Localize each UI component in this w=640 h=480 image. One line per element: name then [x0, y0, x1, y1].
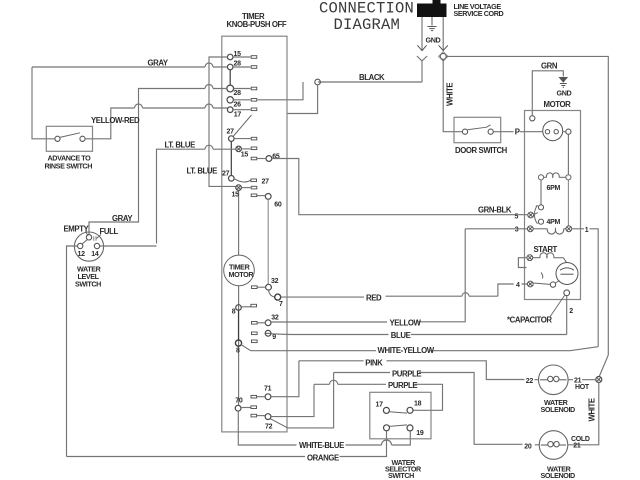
motor protector circle — [543, 121, 563, 141]
svg-text:17: 17 — [234, 111, 242, 118]
wire 70 down to WHITE-BLUE — [238, 411, 410, 445]
contact 28 upper — [227, 64, 233, 70]
terminal right of protector — [566, 129, 571, 134]
contact 32 upper — [266, 284, 272, 290]
ticks at water level top terminal — [94, 236, 96, 241]
svg-text:DIAGRAM: DIAGRAM — [334, 16, 401, 34]
selector terminal 18 — [407, 407, 413, 413]
wire 26 lead — [233, 99, 250, 101]
wire hot to node — [568, 379, 596, 381]
wire PURPLE lower — [271, 384, 443, 416]
svg-text:22: 22 — [526, 378, 534, 385]
wire protector to right terminal — [563, 131, 566, 133]
start switch blade — [533, 283, 550, 284]
svg-text:14: 14 — [91, 251, 99, 258]
wire water level right to lt blue — [100, 245, 157, 247]
contact 72 — [265, 414, 271, 420]
wire RED vertical to terminal 4 — [498, 284, 528, 296]
contact 15 lower — [236, 185, 242, 191]
terminal 1 — [566, 226, 572, 232]
wire YELLOW-RED — [93, 108, 228, 139]
hump LT BLUE over riser — [205, 145, 213, 149]
svg-text:FULL: FULL — [100, 227, 119, 236]
water level terminal left — [78, 243, 83, 248]
timer motor label — [229, 262, 255, 279]
door switch terminal left — [462, 129, 467, 134]
wire 28l to water level — [89, 89, 227, 235]
wire start coil jog — [518, 258, 527, 268]
svg-text:60: 60 — [274, 202, 282, 209]
advance switch terminal left — [55, 136, 60, 141]
ground symbol at plug — [428, 17, 437, 31]
wire PURPLE upper — [288, 373, 540, 445]
svg-text:BLACK: BLACK — [359, 73, 385, 82]
protector inner terminal left — [545, 130, 549, 134]
water selector switch box — [370, 392, 431, 439]
contact rect 15r — [251, 147, 257, 150]
wire capacitor 2 down — [566, 296, 568, 335]
advance switch blade — [60, 133, 80, 138]
contact rect 26 — [251, 99, 257, 102]
label WATER SELECTOR SWITCH — [385, 458, 422, 480]
start coil winding — [533, 253, 567, 263]
wire 28l lead — [234, 88, 251, 90]
node at black wire — [315, 79, 321, 85]
contact rect 17 — [251, 108, 257, 111]
start switch actuator tick — [541, 273, 543, 279]
door switch stubs — [454, 131, 514, 133]
hot solenoid coil — [540, 376, 567, 381]
door switch blade — [468, 125, 491, 130]
wire 15u from riser — [209, 57, 236, 186]
terminal GRN inside motor — [530, 116, 535, 121]
start switch link to capacitor — [555, 281, 559, 284]
svg-text:27: 27 — [222, 171, 230, 178]
wire 72 lead — [257, 415, 265, 417]
svg-text:WHITE: WHITE — [446, 83, 455, 106]
svg-text:6PM: 6PM — [547, 185, 561, 192]
svg-text:WHITE-BLUE: WHITE-BLUE — [299, 441, 344, 450]
contact rect 72 — [251, 414, 257, 417]
wire 65 to GRN-BLK — [272, 159, 528, 215]
contact 17 — [227, 107, 233, 113]
svg-text:32: 32 — [271, 278, 279, 285]
svg-text:DOOR SWITCH: DOOR SWITCH — [455, 146, 508, 155]
wire BLACK — [318, 81, 422, 83]
contact 70 — [235, 405, 241, 411]
hump PURPLE lower over riser — [330, 380, 338, 384]
svg-text:MOTOR: MOTOR — [229, 270, 255, 279]
svg-text:WHITE-YELLOW: WHITE-YELLOW — [378, 346, 435, 355]
label 21 hot — [574, 378, 590, 391]
water level switch circle — [74, 232, 103, 261]
wire BLUE — [271, 333, 567, 336]
contact rect 70 — [251, 406, 257, 409]
capacitor circle — [556, 263, 578, 285]
contact 15 right — [236, 146, 242, 152]
svg-text:RINSE SWITCH: RINSE SWITCH — [45, 161, 93, 170]
contact 32 lower — [265, 320, 271, 326]
svg-text:27: 27 — [262, 178, 270, 185]
blade 32-7 — [269, 290, 275, 297]
svg-text:GRN-BLK: GRN-BLK — [478, 206, 512, 215]
capacitor chord — [561, 273, 574, 275]
contact 65 — [266, 156, 272, 162]
contact rect 65 — [251, 157, 257, 160]
svg-text:8: 8 — [236, 347, 240, 354]
junction circle right lead — [440, 53, 446, 59]
wire contact 26 to black — [258, 82, 304, 100]
capacitor arc — [560, 268, 574, 270]
svg-text:72: 72 — [265, 424, 273, 431]
wire plug left lead — [421, 17, 423, 51]
selector terminal 17b — [384, 425, 390, 431]
svg-text:4: 4 — [516, 282, 520, 289]
link 27u-27l — [230, 141, 232, 175]
terminal 3 — [527, 226, 533, 232]
label WATER LEVEL SWITCH — [75, 264, 102, 288]
cold solenoid coil — [541, 442, 566, 447]
svg-text:CONNECTION: CONNECTION — [319, 0, 414, 18]
wire 60 lead — [257, 195, 265, 197]
svg-text:HOT: HOT — [575, 384, 590, 391]
svg-text:3: 3 — [515, 227, 519, 234]
arrow right lead — [439, 45, 448, 50]
contact rect 60 — [251, 194, 257, 197]
wire right terminal down to 6PM — [567, 134, 569, 174]
title CONNECTION DIAGRAM — [319, 0, 414, 34]
contact rect 8u — [251, 304, 257, 307]
wire 3 row with coil 4PM — [465, 228, 527, 230]
selector terminal 17 — [383, 407, 389, 413]
wire timer motor up to contact 15 — [238, 190, 240, 255]
contact 15 upper — [227, 54, 233, 60]
wire 1 to right — [572, 229, 599, 347]
wire top to far right — [446, 56, 608, 355]
svg-text:GND: GND — [557, 89, 572, 98]
svg-text:18: 18 — [414, 400, 422, 407]
svg-text:MOTOR: MOTOR — [544, 100, 572, 109]
svg-text:17: 17 — [376, 402, 384, 409]
selector blade 17b-19 — [389, 425, 407, 427]
selector blade 17-18 — [389, 412, 407, 413]
svg-text:GRN: GRN — [541, 62, 558, 71]
svg-text:21: 21 — [573, 442, 581, 449]
service cord plug (black block) — [417, 0, 447, 17]
hump YELLOW-RED over riser2 — [205, 104, 213, 108]
svg-text:*CAPACITOR: *CAPACITOR — [507, 315, 552, 324]
contact rect 27l — [251, 179, 257, 182]
svg-text:70: 70 — [235, 397, 243, 404]
wire 6PM right down to 4PM right — [567, 180, 569, 226]
svg-text:PURPLE: PURPLE — [388, 381, 417, 390]
wire water level left to orange — [67, 246, 78, 457]
ground symbol motor — [560, 78, 568, 88]
contact rect 15l — [251, 186, 257, 189]
wire 32u lead — [257, 286, 265, 288]
contact 9 — [265, 330, 271, 336]
svg-text:YELLOW: YELLOW — [390, 318, 422, 327]
water level blade — [82, 240, 87, 244]
node right — [596, 377, 602, 383]
advance to rinse switch box — [46, 126, 92, 151]
wire 6PM left down to centrifugal switch — [540, 180, 542, 205]
contact rect 28l — [251, 87, 257, 90]
label WATER SOLENOID cold — [541, 465, 576, 480]
wire 8u lead — [241, 306, 250, 308]
advance switch stubs — [46, 138, 92, 140]
wire 71 lead — [257, 396, 265, 398]
start coil terminal — [527, 255, 533, 261]
wire GRN — [532, 71, 563, 115]
wire left lead to BLACK — [421, 61, 423, 82]
timer motor circle — [224, 255, 255, 286]
svg-text:28: 28 — [234, 90, 242, 97]
hump 28l over riser — [205, 85, 213, 89]
svg-text:SOLENOID: SOLENOID — [541, 405, 576, 414]
wire diagonal into node — [599, 355, 608, 377]
contact rect 27u — [251, 137, 257, 140]
wire terminal5 tick — [534, 213, 538, 215]
pointer capacitor — [550, 296, 565, 318]
svg-text:SOLENOID: SOLENOID — [541, 471, 576, 480]
centrifugal switch contacts — [538, 205, 543, 210]
svg-text:4PM: 4PM — [547, 219, 561, 226]
contact 71 — [265, 394, 271, 400]
svg-text:RED: RED — [366, 293, 382, 302]
wire 70 lead — [241, 407, 251, 409]
arrow left lead — [417, 45, 426, 50]
svg-text:GRAY: GRAY — [148, 59, 169, 68]
wire 15r lead — [241, 148, 250, 150]
connector V left — [417, 56, 427, 61]
svg-text:2: 2 — [569, 308, 573, 315]
door switch terminal right — [488, 129, 493, 134]
svg-text:GND: GND — [426, 36, 441, 45]
wire GRAY top — [32, 67, 227, 139]
contact rect 71 — [251, 395, 257, 398]
label COLD 21 — [571, 436, 590, 450]
hump RED over yellow riser — [462, 293, 469, 297]
timer box — [222, 36, 287, 432]
svg-text:SERVICE CORD: SERVICE CORD — [454, 9, 504, 18]
door switch box — [454, 117, 501, 142]
wire node down white — [568, 383, 599, 445]
blade 8l — [241, 345, 251, 351]
contact 27 upper — [229, 136, 235, 142]
protector inner terminal right — [554, 130, 558, 134]
link 28u-28l — [229, 70, 231, 86]
contact rect 9 — [252, 332, 258, 335]
svg-text:LT. BLUE: LT. BLUE — [165, 141, 196, 150]
terminal 4 — [527, 281, 533, 287]
contact 7 — [275, 294, 281, 300]
link 8u-8l — [238, 310, 240, 340]
start switch terminal — [550, 282, 555, 287]
svg-text:12: 12 — [78, 251, 86, 258]
svg-text:ORANGE: ORANGE — [307, 453, 339, 462]
svg-text:26: 26 — [234, 101, 242, 108]
wire 15l lead — [241, 187, 250, 189]
pointer empty — [86, 232, 89, 236]
svg-text:65: 65 — [272, 154, 280, 161]
wire 65 lead — [257, 158, 266, 160]
contact 8 upper — [236, 305, 242, 311]
motor box — [525, 111, 581, 300]
wire P to motor — [520, 131, 543, 133]
hump WHITE-BLUE over orange riser — [382, 440, 392, 445]
coil 6PM — [538, 173, 571, 180]
contact rect 32u — [252, 286, 258, 289]
wire 15u lead — [233, 56, 251, 58]
svg-text:SWITCH: SWITCH — [75, 280, 101, 289]
wire PINK — [271, 361, 538, 397]
wire RED — [281, 295, 498, 298]
contact 28 lower — [227, 85, 234, 92]
svg-text:19: 19 — [416, 430, 424, 437]
contact 60 — [265, 194, 271, 200]
wire timer motor down to contact 70 — [238, 286, 240, 406]
advance switch terminal right — [80, 136, 85, 141]
water level terminal top — [86, 235, 91, 240]
svg-text:GRAY: GRAY — [112, 214, 133, 223]
svg-text:P: P — [515, 128, 520, 137]
svg-text:15: 15 — [241, 151, 249, 158]
pointer full — [97, 235, 102, 239]
svg-text:9: 9 — [272, 334, 276, 341]
wire ORANGE — [67, 431, 387, 457]
svg-text:32: 32 — [271, 315, 279, 322]
terminal 5 — [528, 212, 534, 218]
blade 17-27 — [234, 115, 252, 136]
wire 17 lead — [233, 109, 251, 111]
contact 27 lower — [229, 176, 235, 182]
water level terminal right — [94, 243, 99, 248]
capacitor bottom terminal — [564, 290, 570, 296]
svg-text:KNOB-PUSH OFF: KNOB-PUSH OFF — [227, 20, 287, 29]
svg-text:15: 15 — [232, 192, 240, 199]
wire plug right lead — [442, 17, 444, 51]
contact rect 28u — [251, 66, 257, 69]
wire 28u lead — [233, 66, 251, 68]
centrifugal switch arc — [534, 205, 537, 224]
svg-text:WHITE: WHITE — [588, 398, 597, 421]
blade 72 — [270, 419, 287, 428]
cold solenoid circle — [539, 431, 568, 460]
svg-text:START: START — [534, 245, 558, 254]
link 60 down to 32 — [267, 199, 269, 284]
label ADVANCE TO RINSE SWITCH — [45, 154, 93, 171]
svg-text:8: 8 — [232, 308, 236, 315]
hump YELLOW-RED over gray riser — [135, 104, 143, 108]
wire YELLOW — [271, 229, 465, 322]
coil 4PM winding — [533, 229, 566, 234]
svg-text:PINK: PINK — [365, 358, 383, 367]
svg-text:SWITCH: SWITCH — [388, 471, 414, 480]
contact rect 32l — [252, 322, 258, 325]
contact 26 — [227, 97, 233, 103]
svg-text:7: 7 — [279, 301, 283, 308]
contact rect 15u — [251, 56, 257, 59]
wire white vertical to door switch — [443, 60, 454, 132]
timer label — [227, 12, 287, 29]
svg-text:LT. BLUE: LT. BLUE — [187, 166, 218, 175]
svg-text:71: 71 — [264, 386, 272, 393]
selector terminal 19 — [407, 425, 413, 431]
wire 27u lead — [234, 138, 250, 140]
label LINE VOLTAGE SERVICE CORD — [454, 2, 504, 18]
hump GRAY over riser — [205, 63, 213, 67]
wire WHITE-YELLOW — [251, 347, 599, 351]
contact 8 lower — [235, 340, 241, 346]
wire node down to timer contact 17 lead — [287, 85, 318, 114]
label WATER SOLENOID hot — [541, 398, 576, 414]
svg-text:27: 27 — [227, 129, 235, 136]
hot solenoid circle — [539, 365, 569, 395]
blade 27l — [234, 179, 251, 182]
svg-text:1: 1 — [585, 227, 589, 234]
wire LT BLUE — [157, 149, 236, 243]
svg-text:20: 20 — [524, 443, 532, 450]
wire 32l lead — [257, 322, 265, 324]
svg-text:BLUE: BLUE — [391, 331, 411, 340]
svg-text:PURPLE: PURPLE — [392, 369, 421, 378]
contact rect mid — [252, 340, 258, 343]
svg-text:YELLOW-RED: YELLOW-RED — [91, 116, 140, 125]
